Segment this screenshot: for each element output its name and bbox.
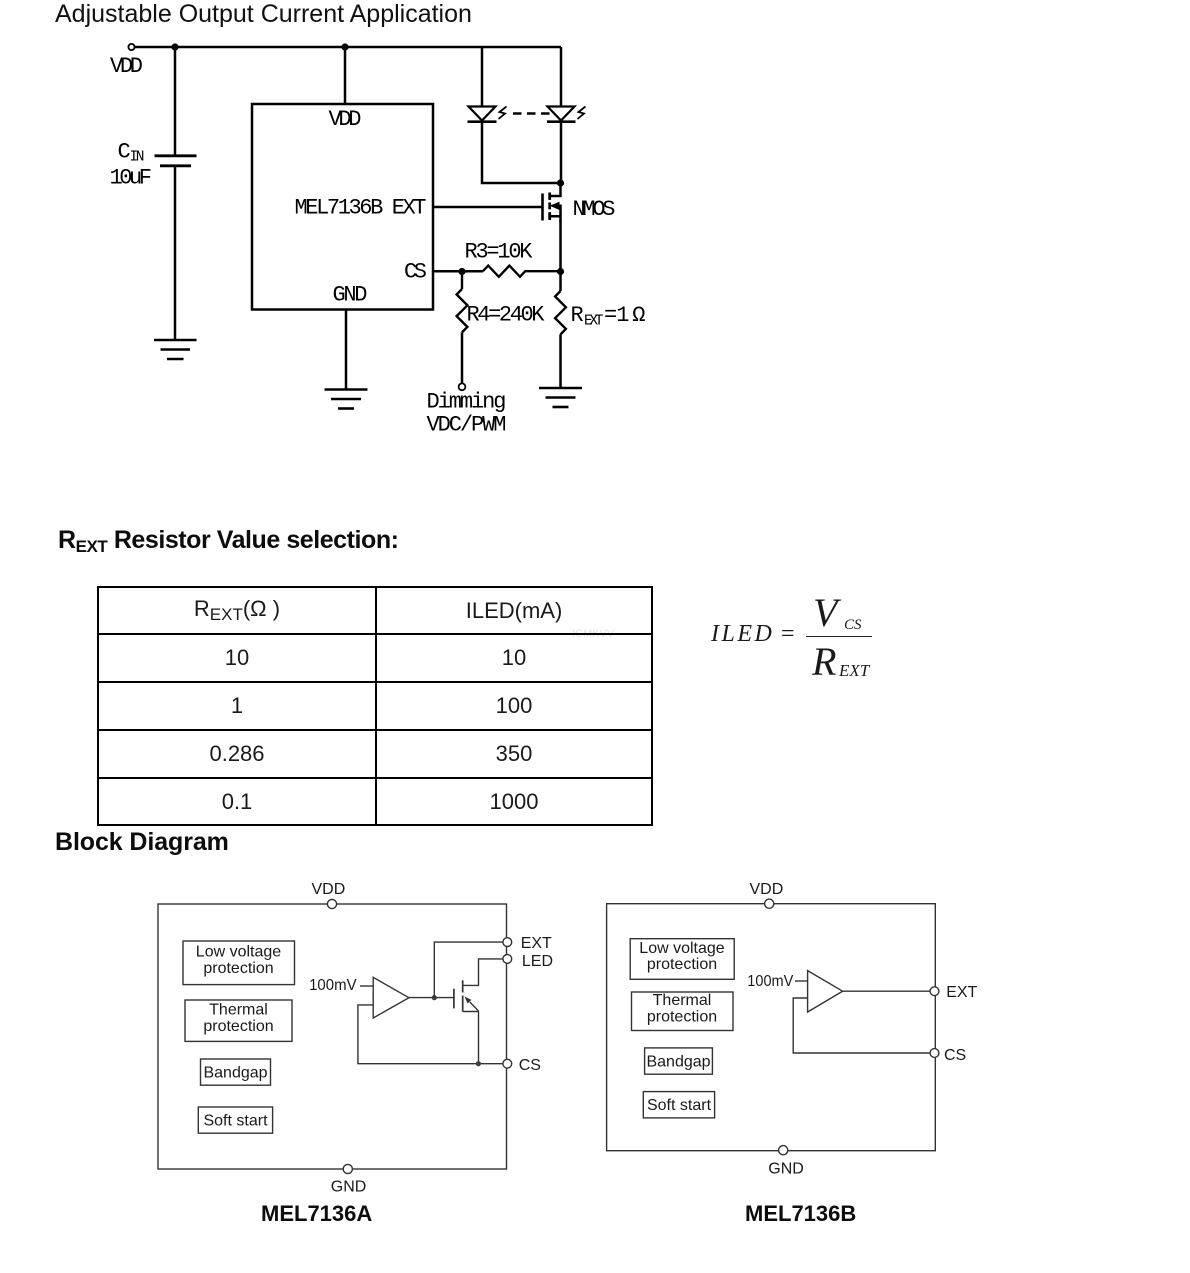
label MEL7136B and pin EXT [295,196,427,221]
wire: LED pin to MOSFET drain A [463,959,503,986]
label CS A [519,1057,541,1074]
pin CS terminal A [503,1059,512,1068]
transistor M1 A [454,980,479,1063]
label CS B [944,1047,966,1064]
wire: LED string branch left [481,47,484,106]
capacitor CIN plates [155,156,197,166]
label EXT A [521,935,552,952]
svg-text:Thermal: Thermal [653,992,712,1009]
wire: op-amp A output to gate [409,997,454,999]
svg-text:CS: CS [944,1047,966,1064]
pin CS terminal B [930,1049,939,1058]
node junction at IC VDD tap [341,43,348,50]
node R3 right junction [557,268,564,275]
label LED A [522,953,553,970]
pin label VDD [329,107,362,132]
node source/CS junction A [476,1061,481,1066]
LED D2 [547,107,576,122]
label EXT B [946,984,977,1001]
LED D2 light squiggle [578,107,586,120]
block Bandgap B [645,1048,713,1074]
label R4=240K [467,302,546,327]
node drain junction [557,179,564,186]
wire: 100mV to op-amp B [795,980,808,982]
node junction at CIN tap [171,43,178,50]
wire: EXT pin to NMOS gate [433,206,543,209]
wire: CIN to ground [174,166,177,339]
svg-text:Soft start: Soft start [203,1113,268,1130]
label NMOS [573,197,616,222]
svg-text:Soft start: Soft start [647,1097,712,1114]
wire: gate node up to EXT A [434,942,503,998]
svg-text:Bandgap: Bandgap [203,1065,267,1082]
svg-text:LED: LED [522,953,553,970]
block Soft start B [643,1092,714,1118]
wire: op-amp B output to EXT [843,990,930,992]
LED D1 light squiggle [499,107,507,120]
label VDD B [750,881,784,898]
block Low voltage protection B [630,939,734,980]
wire: op-amp B feedback to CS [793,998,930,1053]
resistor REXT [555,291,566,334]
svg-text:VDD: VDD [312,881,346,898]
wire: REXT to ground [559,334,562,387]
watermark [572,628,614,640]
label 100mV B [747,973,793,990]
op-amp U1 B [808,971,843,1012]
wire: right LED to drain node [560,122,563,183]
LED D1 [468,107,497,122]
wire: NMOS source down [559,220,562,291]
pin VDD terminal B [765,899,774,908]
ground (below REXT) [539,388,582,407]
svg-text:Low voltage: Low voltage [639,940,724,957]
label R3=10K [465,240,534,265]
formula ILED = Vcs / Rext [711,621,774,648]
terminal VDD (open circle) [128,44,134,50]
svg-text:Bandgap: Bandgap [646,1054,710,1071]
svg-text:EXT: EXT [946,984,977,1001]
wire: top VDD rail [135,46,562,49]
pin EXT terminal A [503,938,512,947]
label VDD A [312,881,346,898]
svg-text:protection: protection [647,1008,717,1025]
label GND A [331,1179,367,1196]
pin label GND [333,283,368,308]
label CIN value [110,140,153,191]
wire: 100mV to op-amp A [360,985,373,987]
heading REXT Resistor Value selection [58,526,399,557]
svg-text:VDD: VDD [750,881,784,898]
pin VDD terminal A [327,899,336,908]
wire: dashed series LEDs [513,112,550,115]
node CS junction [458,268,465,275]
svg-text:protection: protection [203,960,273,977]
resistor R4 [457,289,468,332]
IC A outline MEL7136A [158,904,507,1169]
title [55,0,472,29]
terminal Dimming (open circle) [459,383,466,390]
label GND B [768,1161,804,1178]
label VDD (top-left net) [110,54,143,79]
svg-text:CS: CS [519,1057,541,1074]
pin EXT terminal B [930,987,939,996]
svg-text:protection: protection [647,956,717,973]
wire: CS node down to R4 [461,271,463,289]
pin LED terminal A [503,955,512,964]
svg-text:protection: protection [203,1018,273,1035]
pin label CS [404,260,427,285]
table REXT/ILED [97,586,653,826]
IC U1 MEL7136B body [252,104,433,310]
wire: R4 to dimming terminal [461,332,464,383]
label MEL7136B [745,1201,856,1227]
label 100mV A [309,977,357,994]
wire: VDD rail to IC VDD pin [344,47,347,104]
block Thermal protection A [185,1000,292,1041]
svg-text:100mV: 100mV [747,973,793,990]
block Low voltage protection A [183,941,295,985]
transistor Q1 NMOS [543,183,561,222]
resistor R3 [483,266,561,277]
op-amp U1 A [373,977,409,1018]
block Bandgap A [201,1059,271,1085]
label Dimming VDC/PWM [427,390,507,438]
wire: IC GND pin down [345,310,348,390]
pin GND terminal A [343,1164,352,1173]
svg-text:100mV: 100mV [309,977,357,994]
ground (below IC) [325,390,368,409]
label REXT=1 ohm [571,303,646,330]
svg-text:GND: GND [331,1179,367,1196]
wire: VDD rail to capacitor CIN [174,47,177,155]
label MEL7136A [261,1201,372,1227]
heading Block Diagram [55,828,229,857]
svg-text:EXT: EXT [521,935,552,952]
node gate junction A [432,995,437,1000]
svg-text:Low voltage: Low voltage [196,944,281,961]
wire: left LED to drain node [482,122,561,183]
pin GND terminal B [779,1146,788,1155]
wire: LED string branch right [560,47,563,106]
wire: CS pin [433,270,483,273]
ground (below CIN) [154,340,197,359]
svg-text:GND: GND [768,1161,804,1178]
block Thermal protection B [632,992,734,1031]
svg-text:Thermal: Thermal [209,1002,268,1019]
IC B outline MEL7136B [607,904,936,1151]
wire: op-amp A feedback to CS [358,1005,503,1064]
block Soft start A [198,1107,272,1133]
